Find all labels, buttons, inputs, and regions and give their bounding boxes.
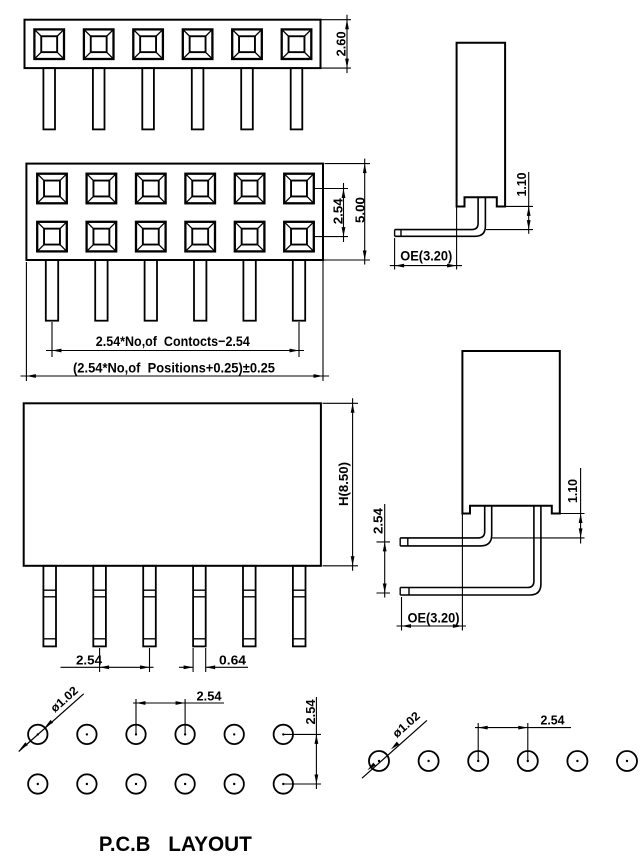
- pcb hole A5: [225, 725, 244, 744]
- hole diameter leader arrow at line end: [18, 742, 28, 751]
- pcb hole center marks: [37, 733, 629, 785]
- header body (front view): [24, 403, 321, 566]
- hole pitch arrow left: [136, 701, 146, 705]
- pin pitch 2.54 dimension line: [61, 666, 154, 668]
- pcb hole B2: [77, 774, 96, 793]
- pin pitch 2.54 arrow left: [100, 665, 110, 669]
- pin 2: [93, 68, 105, 129]
- back bent pin outer edge: [400, 506, 541, 595]
- dimension OE(3.20) arrow left: [402, 624, 412, 628]
- hole diameter leader arrow at line end (right block): [366, 763, 376, 772]
- pcb hole B1: [28, 774, 47, 793]
- hole diameter leader line (left block): [19, 694, 84, 752]
- pcb hole C4: [518, 751, 538, 771]
- dimension H(8.50) dimension line: [352, 398, 354, 571]
- dimension H(8.50) arrow up: [351, 403, 355, 413]
- hole diameter leader line (right block): [362, 720, 427, 778]
- hole pitch arrow right: [176, 701, 186, 705]
- dimension 1.10 arrow down: [527, 220, 531, 230]
- bent pin outer edge: [395, 197, 486, 236]
- row pitch 2.54 dimension line (left block): [315, 697, 317, 789]
- body edge extension line down: [456, 207, 458, 270]
- dimension 5.00 extension lines: [318, 164, 370, 260]
- contact cavity row2-2: [87, 222, 117, 252]
- contacts-span arrow right: [290, 349, 300, 353]
- pcb hole A6: [274, 725, 293, 744]
- pcb hole B4: [175, 774, 194, 793]
- right-angle header body (side view, double row): [462, 351, 559, 514]
- contact cavity row2-3: [136, 222, 166, 252]
- single-row header body (top view): [25, 20, 321, 68]
- back bent pin inner edge: [400, 506, 534, 588]
- contact cavity row2-5: [235, 222, 265, 252]
- contact cavity row1-5: [235, 174, 265, 204]
- dimension OE(3.20) dimension line: [390, 265, 462, 267]
- pcb hole C6: [617, 751, 637, 771]
- pin width 0.64 right line: [206, 666, 248, 668]
- front pin 4: [193, 566, 206, 647]
- dimension 5.00 dimension line: [364, 159, 366, 265]
- pcb hole C2: [419, 751, 439, 771]
- pin r1: [46, 260, 58, 321]
- svg-text:2.54: 2.54: [541, 713, 565, 727]
- pin r2: [95, 260, 107, 321]
- pin width 0.64 extension lines: [193, 648, 206, 672]
- pcb hole C5: [567, 751, 587, 771]
- dimension 1.10 arrow up: [579, 514, 583, 524]
- dimension 2.54 row pitch arrow down: [342, 227, 346, 237]
- svg-text:0.64: 0.64: [219, 652, 247, 667]
- positions-span dimension extension lines: [26, 260, 323, 381]
- row pitch arrow up: [315, 734, 319, 744]
- hole diameter leader arrow at circle edge (right block): [390, 742, 400, 751]
- dimension 2.54 row pitch arrow up: [342, 189, 346, 199]
- front pin 1: [43, 566, 56, 647]
- svg-text:2.60: 2.60: [334, 31, 348, 56]
- pcb hole B6: [274, 774, 293, 793]
- front bent pin inner edge: [400, 506, 485, 538]
- contact cavity 5: [232, 29, 262, 59]
- svg-text:1.10: 1.10: [566, 479, 580, 503]
- svg-text:2.54: 2.54: [371, 508, 385, 534]
- pcb hole A4: [175, 725, 194, 744]
- bent pin end cap: [395, 230, 401, 237]
- dimension OE(3.20) dimension line: [397, 625, 467, 627]
- pin width 0.64 left arrow line: [179, 666, 193, 668]
- front pin 3: [143, 566, 156, 647]
- hole pitch arrow left (right block): [478, 726, 488, 730]
- pin pitch 2.54 extension lines: [100, 648, 150, 672]
- pcb hole C3: [468, 751, 488, 771]
- bent pin inner edge: [395, 197, 479, 229]
- svg-text:H(8.50): H(8.50): [336, 462, 351, 506]
- back bent pin end cap: [400, 588, 409, 596]
- contacts-span dimension extension lines: [52, 322, 299, 357]
- svg-text:2.54: 2.54: [76, 652, 103, 667]
- pin r3: [145, 260, 157, 321]
- contact cavity row1-1: [37, 174, 67, 204]
- dimension 2.54 pin spacing tick lines: [377, 542, 391, 593]
- contact cavity 6: [282, 29, 312, 59]
- dimension 2.60 arrow up: [345, 20, 349, 30]
- pcb hole B5: [225, 774, 244, 793]
- front bent pin outer edge: [400, 506, 492, 546]
- dimension 2.54 row pitch extension lines: [314, 189, 348, 237]
- pin width 0.64 arrow pointing left: [206, 665, 216, 669]
- contacts-span dimension line: [46, 350, 304, 352]
- svg-text:2.54: 2.54: [332, 198, 346, 224]
- contact cavity row1-6: [284, 174, 314, 204]
- body edge extension line down: [461, 514, 463, 631]
- contact cavity 2: [84, 29, 114, 59]
- hole diameter leader arrow at circle edge: [43, 720, 53, 729]
- dimension H(8.50) arrow down: [351, 556, 355, 566]
- dimension OE(3.20) arrow right: [447, 264, 457, 268]
- dimension 2.54 pin spacing arrow down: [383, 584, 387, 594]
- dimension OE(3.20) arrow left: [395, 264, 405, 268]
- pin 4: [192, 68, 204, 129]
- contact cavity 1: [34, 29, 64, 59]
- row pitch arrow down: [315, 775, 319, 785]
- positions-span arrow right: [314, 374, 324, 378]
- pcb hole A3: [126, 725, 145, 744]
- svg-text:P.C.B: P.C.B: [99, 832, 151, 856]
- svg-text:2.54: 2.54: [304, 699, 318, 724]
- contact cavity 4: [183, 29, 213, 59]
- pin pitch 2.54 arrow right: [140, 665, 150, 669]
- front pin 5: [243, 566, 256, 647]
- pin r4: [194, 260, 206, 321]
- dimension OE(3.20) arrow right: [453, 624, 463, 628]
- svg-text:OE(3.20): OE(3.20): [408, 610, 460, 625]
- dimension 1.10 arrow down: [579, 528, 583, 538]
- contacts-span arrow left: [52, 349, 62, 353]
- dimension H(8.50) extension lines: [323, 403, 359, 566]
- hole pitch 2.54 dimension line (left block): [133, 702, 224, 704]
- positions-span arrow left: [26, 374, 36, 378]
- contact cavity 3: [133, 29, 163, 59]
- svg-text:OE(3.20): OE(3.20): [400, 248, 452, 263]
- dimension 1.10 extension lines: [492, 514, 585, 538]
- svg-text:(2.54*No,of Positions+0.25)±0: (2.54*No,of Positions+0.25)±0.25: [73, 359, 275, 375]
- hole pitch arrow right (right block): [518, 726, 528, 730]
- pcb hole A2: [77, 725, 96, 744]
- svg-text:2.54*No,of Contocts−2.54: 2.54*No,of Contocts−2.54: [96, 333, 250, 349]
- contact cavity row2-6: [284, 222, 314, 252]
- svg-text:5.00: 5.00: [354, 197, 368, 223]
- row pitch 2.54 extension lines (left block): [283, 734, 321, 784]
- dimension OE(3.20) extension line: [401, 597, 403, 631]
- dimension 2.54 pin spacing arrow up: [383, 542, 387, 552]
- pin 6: [291, 68, 303, 129]
- contact cavity row1-4: [185, 174, 215, 204]
- dimension OE(3.20) extension line: [394, 238, 396, 270]
- dimension 1.10 arrow up: [527, 206, 531, 216]
- hole pitch 2.54 extension lines (left block): [136, 699, 185, 735]
- pin 1: [43, 68, 55, 129]
- pin 3: [142, 68, 154, 129]
- dimension 5.00 arrow up: [363, 164, 367, 174]
- dimension 2.54 pin spacing dimension line: [384, 504, 386, 598]
- pin 5: [241, 68, 253, 129]
- dimension 2.54 row pitch dimension line: [343, 183, 345, 242]
- pcb hole C1: [369, 751, 389, 771]
- dimension 2.60 arrow down: [345, 59, 349, 69]
- pin r6: [293, 260, 305, 321]
- pin width 0.64 arrow pointing right: [184, 665, 194, 669]
- dimension 1.10 dimension line: [580, 468, 582, 544]
- dimension 1.10 extension lines: [486, 206, 533, 229]
- hole pitch 2.54 extension lines (right block): [478, 723, 528, 761]
- dimension 2.60 extension lines: [322, 20, 352, 68]
- front pin 6: [293, 566, 306, 647]
- hole pitch 2.54 dimension line (right block): [475, 727, 571, 729]
- front bent pin end cap: [400, 538, 408, 546]
- contact cavity row2-4: [185, 222, 215, 252]
- pcb hole A1: [28, 725, 47, 744]
- contact cavity row2-1: [37, 222, 67, 252]
- dimension 2.60 dimension line: [346, 15, 348, 73]
- right-angle header body (side view, single row): [457, 43, 506, 207]
- contact cavity row1-3: [136, 174, 166, 204]
- dimension 1.10 dimension line: [528, 172, 530, 234]
- contact cavity row1-2: [87, 174, 117, 204]
- positions-span dimension line: [21, 375, 330, 377]
- double-row header body (top view): [26, 164, 323, 260]
- dimension 5.00 arrow down: [363, 251, 367, 261]
- svg-text:1.10: 1.10: [515, 172, 529, 196]
- pcb hole B3: [126, 774, 145, 793]
- pin r5: [243, 260, 255, 321]
- svg-text:LAYOUT: LAYOUT: [168, 832, 252, 856]
- front pin 2: [93, 566, 106, 647]
- svg-text:2.54: 2.54: [197, 689, 222, 703]
